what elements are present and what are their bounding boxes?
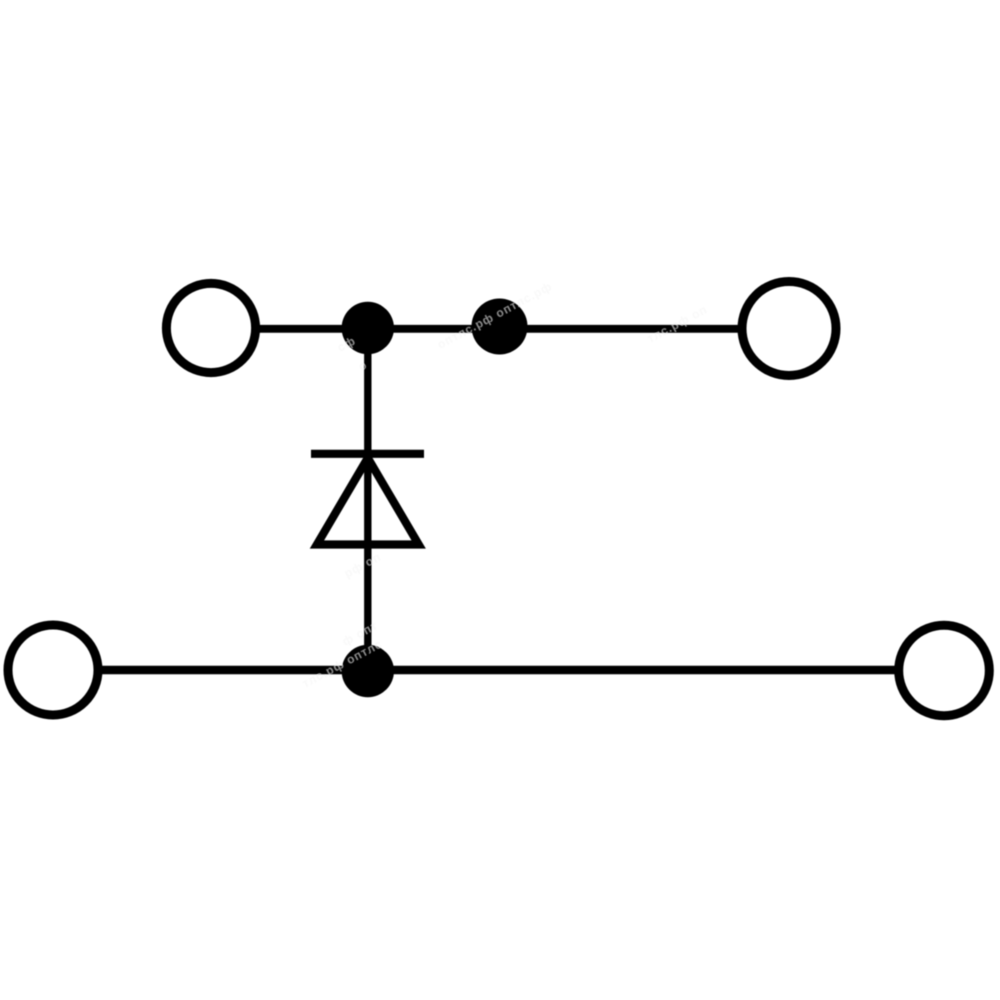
terminal circle top-left — [166, 283, 255, 372]
diode D1 — [311, 454, 424, 545]
junction node bottom — [342, 645, 394, 697]
junction node mid feed-through — [472, 299, 528, 355]
terminal circle top-right — [742, 282, 836, 376]
wire vertical branch — [364, 328, 371, 670]
wire bottom bus — [100, 666, 898, 675]
terminal circle bottom-right — [899, 625, 990, 716]
terminal circle bottom-left — [8, 625, 98, 715]
junction node top — [342, 302, 394, 354]
wire top bus — [256, 325, 742, 333]
